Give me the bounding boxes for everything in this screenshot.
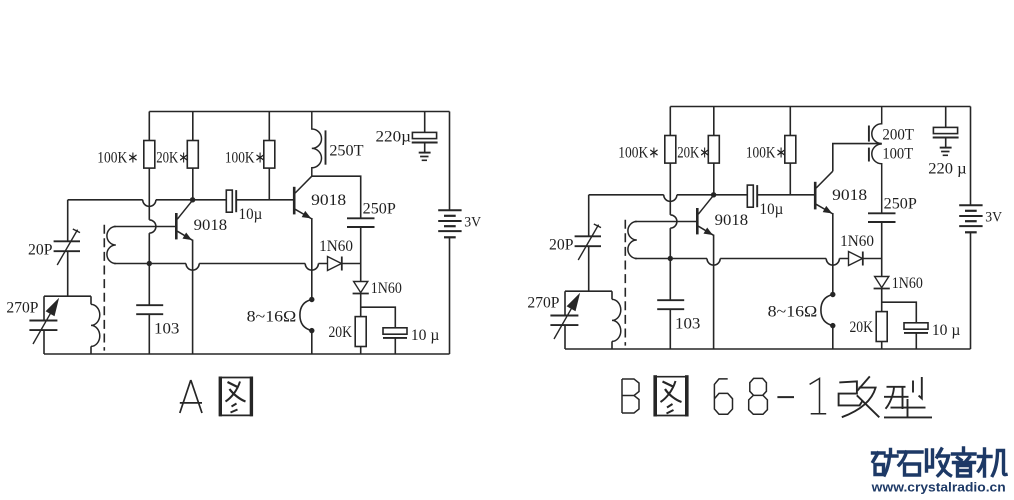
label C5 220u (A) bbox=[376, 129, 412, 146]
label 270P (B) bbox=[527, 295, 559, 312]
label C2 250P (A) bbox=[363, 201, 396, 218]
battery BT1 3V (A) bbox=[438, 210, 461, 237]
caption dash (B) bbox=[777, 396, 794, 398]
logo hanzi shou bbox=[927, 449, 951, 476]
wire top supply rail (A) bbox=[149, 111, 449, 113]
transformer T2 winding 200T (B) bbox=[872, 107, 882, 144]
wire R3 bottom lead (B) bbox=[789, 163, 791, 195]
wire 20P top lead (B) bbox=[588, 195, 590, 237]
wire right edge (battery top lead) (A) bbox=[449, 112, 451, 211]
wire right edge (battery bottom lead) (A) bbox=[449, 237, 451, 354]
label R3 100K* (B) bbox=[746, 144, 787, 161]
wire 20P bottom lead (B) bbox=[588, 246, 590, 291]
variable capacitor 270P (B) bbox=[550, 294, 579, 339]
svg-text:20K: 20K bbox=[328, 324, 352, 341]
caption hanzi tu (diagram) (A) bbox=[219, 377, 253, 417]
wire 270P branch (B) bbox=[564, 291, 566, 349]
svg-text:10µ: 10µ bbox=[239, 206, 263, 223]
earphone 8-16ohm (A) bbox=[300, 297, 315, 334]
label Q1 9018 (A) bbox=[194, 217, 227, 234]
capacitor C3 10u output (B) bbox=[904, 323, 928, 333]
svg-text:1N60: 1N60 bbox=[892, 275, 923, 292]
wire collector/base-bias rail with hop (A) bbox=[68, 200, 227, 207]
svg-text:8~16Ω: 8~16Ω bbox=[247, 309, 297, 326]
capacitor C1 10u coupling (A) bbox=[226, 190, 236, 212]
caption digit 6 (B) bbox=[714, 379, 732, 414]
svg-text:103: 103 bbox=[675, 316, 700, 333]
transformer T2 winding 100T (B) bbox=[872, 144, 882, 213]
label T1 250T (A) bbox=[329, 142, 363, 159]
svg-text:20P: 20P bbox=[549, 237, 574, 254]
resistor R4 20K (A) bbox=[355, 317, 366, 347]
transformer T2 core bars (B) bbox=[868, 126, 870, 162]
wire 10u to Q2 base (A) bbox=[236, 199, 294, 201]
label R3 100K* (A) bbox=[225, 149, 266, 166]
capacitor C2 250P (B) bbox=[868, 213, 896, 222]
variable capacitor 270P (A) bbox=[29, 299, 58, 344]
logo hanzi ji bbox=[979, 449, 1007, 476]
diode D1 1N60 detector (A) bbox=[328, 257, 342, 271]
resistor R1 100K (B) bbox=[665, 107, 676, 164]
label T2 200T (B) bbox=[882, 127, 914, 144]
caption digit 1 (B) bbox=[810, 378, 827, 413]
label D1 1N60 (B) bbox=[840, 233, 874, 250]
caption hanzi gai (modify) (B) bbox=[839, 376, 880, 417]
wire 220u leads (A) bbox=[424, 112, 426, 153]
wire R3 bottom lead (A) bbox=[268, 168, 270, 200]
inductor L1 antenna coil (A) bbox=[91, 304, 100, 346]
wire R4 bottom lead (B) bbox=[881, 342, 883, 350]
label BT1 3V (A) bbox=[464, 215, 481, 231]
resistor R1 100K (A) bbox=[144, 112, 155, 169]
svg-text:270P: 270P bbox=[6, 300, 38, 317]
wire 250P to D2 (B) bbox=[881, 222, 883, 277]
wire right edge (battery top lead) (B) bbox=[970, 107, 972, 206]
node coil/C103 junction (B) bbox=[668, 256, 673, 261]
svg-text:250T: 250T bbox=[329, 142, 363, 159]
wire 250P to D2 (A) bbox=[360, 227, 362, 282]
label T2 100T (B) bbox=[882, 145, 913, 162]
transistor Q2 9018 (A) bbox=[294, 176, 312, 219]
wire collector/base-bias rail with hop (B) bbox=[589, 195, 748, 202]
svg-text:9018: 9018 bbox=[832, 187, 867, 204]
capacitor C2 250P (A) bbox=[347, 218, 375, 227]
label C2 250P (B) bbox=[884, 196, 917, 213]
svg-text:10 µ: 10 µ bbox=[411, 327, 440, 344]
wire tank top edge (A) bbox=[44, 295, 91, 297]
caption hanzi tu (diagram) (B) bbox=[654, 375, 688, 416]
diode D2 1N60 vertical (A) bbox=[353, 282, 369, 294]
caption letter B (B) bbox=[622, 379, 639, 413]
wire 10u output bottom lead (A) bbox=[394, 338, 396, 354]
caption hanzi xing (model) (B) bbox=[884, 377, 932, 417]
earphone 8-16ohm (B) bbox=[821, 292, 836, 329]
resistor R3 100K (B) bbox=[785, 107, 796, 164]
label C3 10u (B) bbox=[932, 322, 961, 339]
battery BT1 3V (B) bbox=[959, 205, 982, 232]
wire top supply rail (B) bbox=[670, 106, 970, 108]
svg-text:250P: 250P bbox=[884, 196, 917, 213]
svg-text:9018: 9018 bbox=[715, 212, 748, 229]
wire D2 to R4/C-10u tee (A) bbox=[361, 294, 396, 328]
wire Q1 base to coil (B) bbox=[635, 221, 698, 223]
capacitor C3 10u output (A) bbox=[383, 328, 407, 338]
wire R1 drop with hop over base wire (A) bbox=[149, 168, 156, 305]
inductor L1 antenna coil (B) bbox=[612, 299, 621, 341]
wire bottom ground rail (B) bbox=[565, 348, 971, 350]
wire Q2 collector tap to T2 (B) bbox=[833, 144, 882, 172]
logo hanzi yin bbox=[953, 448, 976, 476]
trimmer capacitor 20P (B) bbox=[575, 224, 601, 260]
wire D2 to R4/C-10u tee (B) bbox=[882, 289, 917, 323]
wire earphone to ground (A) bbox=[311, 333, 313, 354]
resistor R4 20K (B) bbox=[876, 312, 887, 342]
wire right edge (battery bottom lead) (B) bbox=[970, 232, 972, 349]
capacitor C5 220u filter (B) bbox=[933, 127, 959, 137]
svg-text:20K∗: 20K∗ bbox=[677, 144, 710, 161]
transformer T1 core bar (A) bbox=[325, 130, 327, 164]
svg-text:200T: 200T bbox=[882, 127, 914, 144]
inductor L2 feedback coil (B) bbox=[628, 222, 637, 259]
svg-text:100K∗: 100K∗ bbox=[618, 144, 659, 161]
wire tank top edge (B) bbox=[565, 290, 612, 292]
transistor Q1 9018 (A) bbox=[176, 200, 192, 240]
label C4 103 (A) bbox=[154, 321, 179, 338]
label Q2 9018 (B) bbox=[832, 187, 867, 204]
ferrite core dashed line (A) bbox=[103, 225, 105, 351]
capacitor C1 10u coupling (B) bbox=[747, 185, 757, 207]
wire bottom ground rail (A) bbox=[44, 353, 450, 355]
ground below C5 (A) bbox=[419, 153, 431, 161]
inductor L2 feedback coil (A) bbox=[107, 227, 116, 264]
diode D1 1N60 detector (B) bbox=[849, 252, 863, 266]
wire 20P top lead (A) bbox=[67, 200, 69, 242]
capacitor C5 220u filter (A) bbox=[412, 132, 438, 142]
svg-text:10µ: 10µ bbox=[760, 201, 784, 218]
transformer T1 250T winding (A) bbox=[312, 112, 322, 177]
label R2 20K* (B) bbox=[677, 144, 710, 161]
wire 20P bottom lead (A) bbox=[67, 251, 69, 296]
label 20P (A) bbox=[28, 242, 53, 259]
label Q2 9018 (A) bbox=[311, 192, 346, 209]
node coil/C103 junction (A) bbox=[147, 261, 152, 266]
wire Q1 emitter to ground (B) bbox=[713, 235, 715, 349]
wire Q2 emitter down (A) bbox=[311, 218, 313, 297]
wire R1 drop with hop over base wire (B) bbox=[670, 163, 677, 300]
label C3 10u (A) bbox=[411, 327, 440, 344]
capacitor C4 103 bypass (B) bbox=[657, 300, 684, 349]
svg-text:9018: 9018 bbox=[311, 192, 346, 209]
svg-text:www.crystalradio.cn: www.crystalradio.cn bbox=[871, 480, 1006, 494]
label R1 100K* (B) bbox=[618, 144, 659, 161]
label D1 1N60 (A) bbox=[319, 238, 353, 255]
wire R4 bottom lead (A) bbox=[360, 347, 362, 355]
label 20P (B) bbox=[549, 237, 574, 254]
label C1 10u (B) bbox=[760, 201, 784, 218]
node collector of Q1 / R2 junction (B) bbox=[711, 192, 716, 197]
svg-text:3V: 3V bbox=[464, 215, 481, 231]
svg-text:10 µ: 10 µ bbox=[932, 322, 961, 339]
label C4 103 (B) bbox=[675, 316, 700, 333]
svg-text:1N60: 1N60 bbox=[319, 238, 353, 255]
label C1 10u (A) bbox=[239, 206, 263, 223]
label BT1 3V (B) bbox=[985, 210, 1002, 226]
svg-text:100T: 100T bbox=[882, 145, 913, 162]
ferrite core dashed line (B) bbox=[624, 220, 626, 346]
capacitor C4 103 bypass (A) bbox=[136, 305, 163, 354]
wire Q2 emitter down (B) bbox=[832, 213, 834, 292]
label D2 1N60 (B) bbox=[892, 275, 923, 292]
transistor Q2 9018 (B) bbox=[815, 171, 833, 214]
caption digit 8 (B) bbox=[749, 378, 768, 414]
logo url text bbox=[871, 480, 1006, 494]
wire detector rail with hops (A) bbox=[114, 264, 361, 271]
wire 10u output bottom lead (B) bbox=[915, 333, 917, 349]
label R4 20K (A) bbox=[328, 324, 352, 341]
svg-text:100K∗: 100K∗ bbox=[746, 144, 787, 161]
label earphone 8~16ohm (A) bbox=[247, 309, 297, 326]
resistor R2 20K (A) bbox=[187, 112, 198, 169]
wire antenna coil leads (B) bbox=[611, 291, 613, 349]
wire R2 bottom lead (B) bbox=[713, 163, 715, 195]
svg-text:100K∗: 100K∗ bbox=[225, 149, 266, 166]
svg-text:20P: 20P bbox=[28, 242, 53, 259]
logo hanzi shi bbox=[899, 452, 923, 475]
svg-text:20K∗: 20K∗ bbox=[156, 149, 189, 166]
logo hanzi kuang bbox=[873, 450, 898, 476]
svg-text:100K∗: 100K∗ bbox=[97, 149, 138, 166]
wire R2 bottom lead (A) bbox=[192, 168, 194, 200]
label R1 100K* (A) bbox=[97, 149, 138, 166]
svg-text:9018: 9018 bbox=[194, 217, 227, 234]
label R2 20K* (A) bbox=[156, 149, 189, 166]
svg-text:20K: 20K bbox=[849, 319, 873, 336]
svg-text:220 µ: 220 µ bbox=[928, 160, 966, 177]
svg-text:3V: 3V bbox=[985, 210, 1002, 226]
node collector of Q1 / R2 junction (A) bbox=[190, 197, 195, 202]
wire Q1 base to coil (A) bbox=[114, 226, 177, 228]
label earphone 8~16ohm (B) bbox=[768, 304, 818, 321]
ground below C5 (B) bbox=[940, 148, 952, 156]
svg-text:270P: 270P bbox=[527, 295, 559, 312]
wire earphone to ground (B) bbox=[832, 328, 834, 349]
svg-text:220µ: 220µ bbox=[376, 129, 412, 146]
svg-text:8~16Ω: 8~16Ω bbox=[768, 304, 818, 321]
trimmer capacitor 20P (A) bbox=[54, 229, 80, 265]
wire detector rail with hops (B) bbox=[635, 259, 882, 266]
label C5b 220u (B) bbox=[928, 160, 966, 177]
wire Q1 emitter to ground (A) bbox=[192, 240, 194, 354]
svg-text:1N60: 1N60 bbox=[371, 280, 402, 297]
wire T1 to C2 250P (A) bbox=[312, 176, 361, 218]
wire 10u to Q2 base (B) bbox=[757, 194, 815, 196]
resistor R3 100K (A) bbox=[264, 112, 275, 169]
wire antenna coil leads (A) bbox=[90, 296, 92, 354]
diode D2 1N60 vertical (B) bbox=[874, 277, 890, 289]
label Q1 9018 (B) bbox=[715, 212, 748, 229]
label 270P (A) bbox=[6, 300, 38, 317]
caption letter A (A) bbox=[180, 380, 202, 413]
wire 220u leads (B) bbox=[945, 107, 947, 148]
svg-text:103: 103 bbox=[154, 321, 179, 338]
resistor R2 20K (B) bbox=[708, 107, 719, 164]
label D2 1N60 (A) bbox=[371, 280, 402, 297]
transistor Q1 9018 (B) bbox=[697, 195, 713, 235]
label R4 20K (B) bbox=[849, 319, 873, 336]
svg-text:250P: 250P bbox=[363, 201, 396, 218]
wire 270P branch (A) bbox=[43, 296, 45, 354]
svg-text:1N60: 1N60 bbox=[840, 233, 874, 250]
